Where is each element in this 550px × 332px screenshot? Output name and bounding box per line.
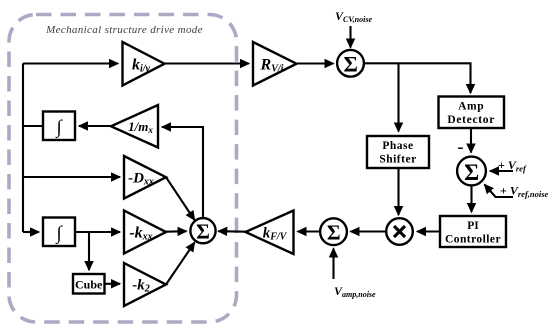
summing junction (amp noise) (320, 218, 347, 245)
gain k_i/v (123, 42, 165, 86)
svg-text:Controller: Controller (445, 234, 501, 246)
gain -D_xx (124, 156, 166, 199)
gain -k_xx (124, 211, 166, 254)
wire: Phase Shifter output down to multiplier (397, 168, 399, 215)
wire: V_CV,noise arrow into top sum (349, 26, 351, 48)
svg-text:VCV,noise: VCV,noise (335, 9, 372, 24)
svg-text:Σ: Σ (464, 160, 479, 185)
svg-text:kF/V: kF/V (263, 226, 288, 243)
wire: R_V/i output to sum (297, 62, 334, 64)
svg-text:Σ: Σ (196, 220, 210, 244)
wire: -k2 output diagonal to sum (166, 243, 195, 285)
wire: V_ref,noise bent arrow into ref sum (485, 185, 514, 198)
gain -k2 (124, 263, 166, 306)
svg-text:1/mx: 1/mx (128, 119, 153, 135)
svg-text:-: - (458, 137, 464, 157)
wire: k_F/V output to force sum (218, 230, 245, 233)
wire: ref sum output down to PI Controller (470, 185, 472, 212)
summing junction (reference compare) (457, 157, 486, 186)
gain R_V/i (253, 42, 297, 86)
svg-text:-Dxx: -Dxx (128, 171, 154, 188)
wire: PI Controller output to multiplier (417, 230, 440, 232)
wire: bus to k_i/v input (23, 62, 118, 64)
wire: -D_xx output diagonal to sum (166, 177, 195, 220)
svg-text:Mechanical structure drive mod: Mechanical structure drive mode (45, 24, 203, 36)
wire: Amp Detector output down to ref sum (470, 128, 472, 153)
dashed boundary: Mechanical structure drive mode region (9, 15, 237, 323)
wire: integrator2 output to -k_xx input (75, 231, 120, 233)
integrator 1 (velocity) (43, 112, 75, 141)
svg-text:-kxx: -kxx (129, 225, 152, 243)
svg-text:ki/v: ki/v (132, 57, 151, 75)
svg-text:Σ: Σ (344, 52, 358, 77)
wire: amp-noise sum output to k_F/V (298, 230, 321, 232)
wire: sum output right then down to Amp Detector (364, 63, 471, 93)
wire: branch down to Phase Shifter (397, 63, 399, 131)
gain 1/m_x (111, 105, 158, 148)
wire: bus to -D_xx input (23, 176, 120, 178)
svg-text:-k2: -k2 (132, 278, 150, 295)
integrator 2 (position) (43, 218, 75, 247)
svg-text:∫: ∫ (55, 117, 63, 139)
wire: multiplier output to amp-noise sum (351, 230, 387, 232)
multiplier (386, 218, 413, 245)
svg-text:Shifter: Shifter (379, 154, 416, 166)
svg-text:Σ: Σ (327, 221, 341, 245)
wire: V_ref arrow into ref sum (490, 170, 513, 172)
svg-text:PI: PI (467, 220, 479, 232)
gain k_F/V (246, 211, 294, 255)
block Cube (73, 274, 105, 294)
svg-text:Phase: Phase (382, 140, 413, 152)
wire: -k_xx output to sum (166, 230, 187, 233)
block PI Controller (440, 216, 506, 247)
wire: bus to integrator2 input (23, 231, 39, 233)
wire: 1/m_x output to integrator1 (79, 125, 111, 127)
wire: V_amp,noise arrow into amp-noise sum (332, 249, 334, 280)
wire: left feedback bus vertical (22, 64, 24, 233)
wire: branch down to Cube (88, 232, 90, 270)
block Amp Detector (439, 97, 505, 129)
svg-text:Detector: Detector (447, 114, 495, 126)
wire: k_i/v to R_V/i (165, 62, 250, 64)
svg-text:Amp: Amp (458, 101, 484, 113)
block Phase Shifter (367, 136, 429, 168)
wire: sum output up to 1/m_x input (162, 127, 203, 219)
wire: integrator1 output to bus (23, 125, 43, 127)
wire: Cube output to -k2 input (105, 283, 121, 285)
svg-text:Cube: Cube (75, 278, 103, 292)
svg-text:Vamp,noise: Vamp,noise (334, 284, 376, 299)
svg-text:∫: ∫ (55, 223, 63, 245)
svg-text:RV/i: RV/i (260, 57, 284, 75)
summing junction (pickoff voltage) (337, 50, 364, 77)
summing junction (forces) (190, 218, 215, 243)
